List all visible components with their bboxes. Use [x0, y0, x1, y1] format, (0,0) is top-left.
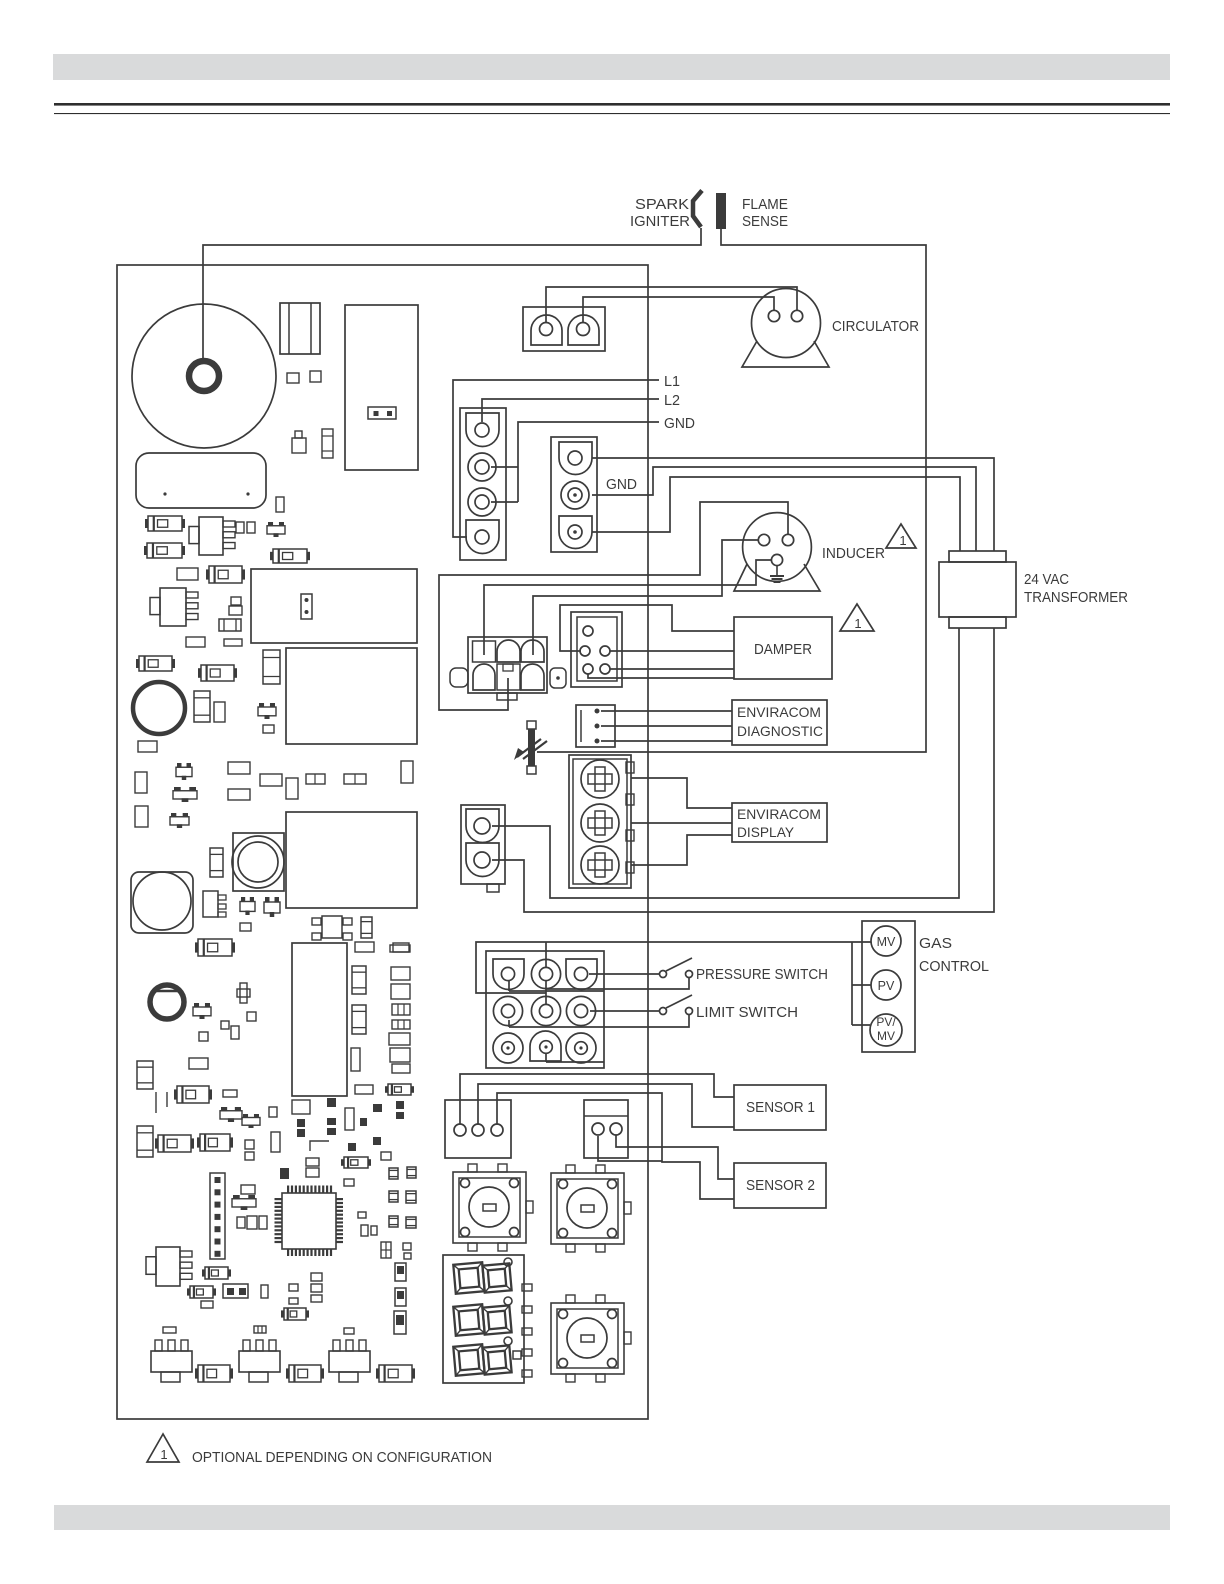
- svg-text:IGNITER: IGNITER: [630, 213, 690, 230]
- svg-text:SPARK: SPARK: [635, 196, 689, 213]
- svg-text:L2: L2: [664, 392, 680, 409]
- svg-text:OPTIONAL DEPENDING ON CONFIGUR: OPTIONAL DEPENDING ON CONFIGURATION: [192, 1449, 492, 1466]
- svg-text:INDUCER: INDUCER: [822, 545, 885, 562]
- svg-text:LIMIT SWITCH: LIMIT SWITCH: [696, 1004, 798, 1021]
- svg-text:PV/: PV/: [876, 1015, 896, 1029]
- svg-text:1: 1: [854, 616, 861, 631]
- svg-text:CONTROL: CONTROL: [919, 958, 989, 975]
- svg-text:MV: MV: [877, 935, 896, 949]
- svg-text:DAMPER: DAMPER: [754, 641, 812, 658]
- svg-text:CIRCULATOR: CIRCULATOR: [832, 318, 919, 335]
- svg-text:ENVIRACOM: ENVIRACOM: [737, 704, 821, 720]
- svg-text:SENSE: SENSE: [742, 213, 788, 230]
- svg-text:ENVIRACOM: ENVIRACOM: [737, 806, 821, 822]
- svg-text:1: 1: [160, 1447, 167, 1462]
- svg-text:DISPLAY: DISPLAY: [737, 824, 795, 840]
- svg-text:DIAGNOSTIC: DIAGNOSTIC: [737, 723, 823, 739]
- svg-text:MV: MV: [877, 1029, 895, 1043]
- svg-text:PRESSURE SWITCH: PRESSURE SWITCH: [696, 966, 828, 983]
- svg-text:L1: L1: [664, 373, 680, 390]
- svg-text:SENSOR 2: SENSOR 2: [746, 1177, 815, 1194]
- svg-text:GND: GND: [606, 476, 637, 493]
- svg-text:1: 1: [899, 533, 906, 548]
- svg-text:PV: PV: [878, 979, 895, 993]
- svg-text:SENSOR 1: SENSOR 1: [746, 1099, 815, 1116]
- svg-text:GND: GND: [664, 415, 695, 432]
- svg-text:TRANSFORMER: TRANSFORMER: [1024, 589, 1128, 606]
- svg-text:24 VAC: 24 VAC: [1024, 571, 1069, 588]
- svg-text:GAS: GAS: [919, 935, 952, 952]
- svg-text:FLAME: FLAME: [742, 196, 788, 213]
